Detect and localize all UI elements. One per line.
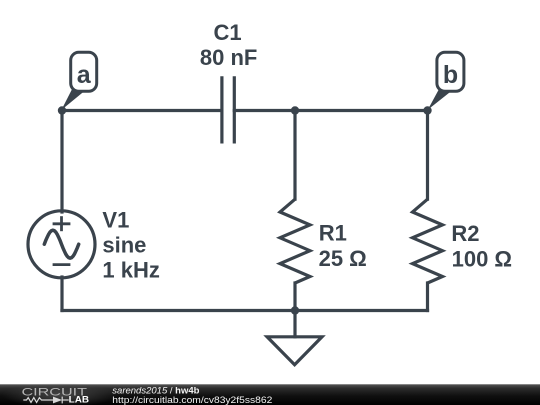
svg-text:sine: sine [102, 233, 146, 258]
junction at C1/R1 top [291, 106, 299, 114]
wire top-left: node a to C1 left plate [62, 109, 222, 112]
wire V1 top [60, 111, 63, 213]
wire R2 bottom [426, 283, 429, 311]
junction node b [423, 106, 431, 114]
R2 value label [451, 221, 512, 272]
V1 value label [102, 208, 159, 283]
svg-text:http://circuitlab.com/cv83y2f5: http://circuitlab.com/cv83y2f5ss862 [112, 395, 272, 405]
svg-text:a: a [77, 61, 92, 89]
capacitor C1 value label [200, 20, 257, 70]
resistor R1 [280, 199, 310, 283]
wire V1 bottom [60, 277, 63, 311]
svg-text:LAB: LAB [69, 394, 89, 404]
wire R1 bottom [293, 283, 296, 311]
svg-text:25 Ω: 25 Ω [319, 246, 367, 271]
footer bar [0, 384, 540, 405]
minus sign [53, 263, 71, 266]
junction ground [291, 306, 299, 314]
svg-text:R1: R1 [319, 221, 347, 246]
wire top-right: C1 right plate to node b [234, 109, 427, 112]
resistor R2 [413, 199, 443, 283]
svg-text:V1: V1 [102, 208, 129, 233]
svg-text:C1: C1 [214, 20, 242, 45]
svg-text:b: b [443, 61, 458, 89]
plus sign [53, 216, 71, 231]
junction node a [58, 106, 66, 114]
R1 value label [319, 221, 367, 272]
logo zigzag and diode [23, 397, 68, 404]
voltage source V1 [28, 211, 95, 278]
wire ground stub [293, 311, 296, 337]
svg-text:80 nF: 80 nF [200, 45, 257, 70]
capacitor C1 [222, 76, 234, 143]
ground [267, 337, 322, 365]
svg-text:1 kHz: 1 kHz [102, 258, 159, 283]
node A flag [61, 52, 96, 110]
svg-text:100 Ω: 100 Ω [452, 247, 512, 272]
node B flag [428, 52, 464, 110]
wire bottom rail [62, 309, 428, 312]
wire R1 top [293, 111, 296, 200]
svg-text:R2: R2 [451, 221, 479, 246]
wire R2 top [426, 111, 429, 200]
